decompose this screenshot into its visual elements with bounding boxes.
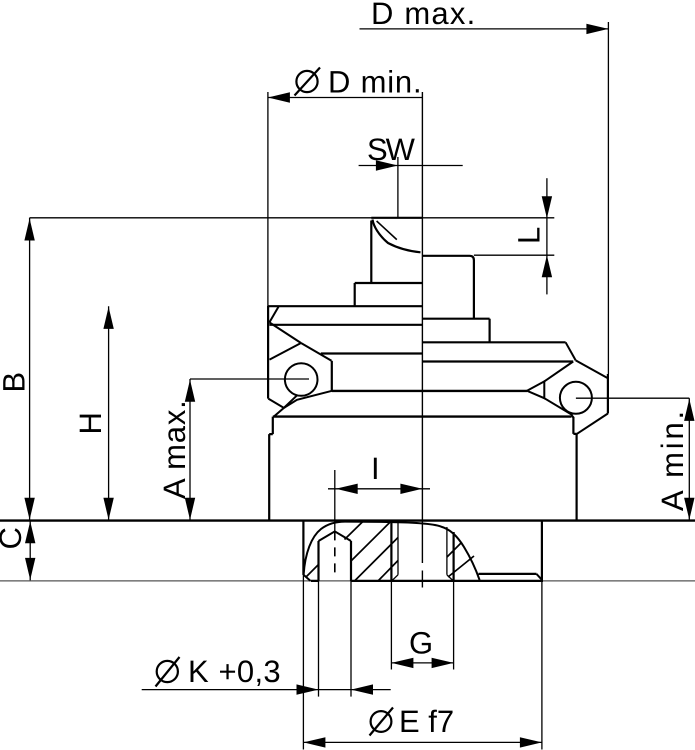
left face line [321,352,423,354]
K extension line right [350,581,352,697]
sealing insert dome outline [304,522,480,580]
right step edge [489,319,491,342]
svg-text:C: C [0,527,28,549]
stud base shoulder right with rounded corner [422,256,474,319]
K dimension line with arrows [142,689,391,691]
thread bore outer left [390,522,392,581]
hex collar line left [269,324,422,326]
insert section hatching (manual strokes) [306,521,475,581]
drill hole right wall [350,541,352,581]
E dimension line with outward arrows [303,741,542,743]
left hexagon: bottom-left chamfer [268,399,284,417]
left cross-hole circle [285,363,318,396]
stud base shoulder left [355,282,423,284]
spigot left wall [302,521,304,575]
right corner triangle: upper diagonal [544,362,573,382]
foot right top edge [479,573,537,575]
dimension A min. vertical line with arrows [688,398,690,520]
Ø D min. extension line / left hex silhouette [267,92,269,306]
thread bore outer right [453,532,455,581]
dimension B vertical line with arrows [29,218,31,521]
right corner triangle: lower diagonal [544,398,572,415]
mid face line (thick, both halves) [332,390,527,392]
svg-text:H: H [73,412,108,434]
dimension H vertical line with arrows [108,306,110,520]
left hexagon: bottom-right edge [284,391,332,408]
SW dimension line with arrow [359,165,463,167]
hole axis dashed centerline [334,531,336,578]
svg-text:D min.: D min. [328,65,422,100]
right hex bottom corner chamfer [577,414,608,434]
svg-text:K: K [188,654,209,689]
hex chamfer right [566,342,576,360]
svg-text:B: B [0,372,32,393]
spigot right wall [541,521,543,581]
neck and body right [571,415,576,520]
stud base left edge [354,283,356,306]
stud left edge [370,221,372,284]
left hexagon: right vertical edge [331,361,333,391]
dimension A max. vertical line with arrows [189,379,191,521]
hex top face right half [422,341,565,343]
hex top-left chamfer [269,306,278,322]
thread chamfer right [447,575,454,581]
G extension line right [453,581,455,669]
left hexagon: upper-left vertex edge [270,343,302,360]
svg-text:G: G [409,626,433,661]
G dimension line with outward arrows [391,662,453,664]
insert bottom edge (thick) [311,580,543,582]
D max. extension line / right hex corner edge [607,22,609,374]
dimension C vertical line with arrows [29,521,31,581]
svg-text:L: L [512,227,547,244]
left hexagon: steep edge to circle [284,395,297,408]
drill cone [319,531,352,541]
hex top face / H reference (left half) [268,305,422,307]
thread chamfer left [392,575,398,581]
G extension line left [390,581,392,669]
dimension Ø D min. label [295,65,423,100]
I extension line (hole axis) [334,470,336,531]
left hexagon face: top-left edge [269,322,301,343]
stud top face (thick part edge) [371,217,422,219]
stud scallop arc (left half section) [373,220,421,253]
hex bottom face [273,415,572,417]
E extension line left [302,575,304,750]
A min. top reference line [576,397,689,399]
hex corner slope right [576,360,608,378]
dimension Ø E f7 label [370,704,455,739]
I dimension line with arrows [328,488,430,490]
hex face line right [422,360,573,362]
panel bottom surface line (thin) [0,580,695,582]
thread bore inner left (thin) [397,522,399,575]
svg-text:I: I [371,451,380,486]
L bottom extension line [474,254,554,256]
drill hole left wall [317,541,319,581]
spigot left chamfer [304,575,311,581]
svg-text:+0,3: +0,3 [219,654,281,689]
foot right chamfer [537,574,542,580]
right cross-hole circle [560,382,592,414]
thread bore inner right (thin) [446,527,448,575]
A max. top reference line [190,378,309,380]
left hexagon: top-right edge [301,343,332,361]
E extension line right [541,581,543,750]
SW extension line [397,157,399,218]
dimension Ø K +0,3 label [156,654,281,689]
right step top [422,318,489,320]
dimension L vertical line with arrows [546,178,548,294]
center axis line [421,92,423,588]
dimension Ø D min. line with left arrow [268,97,422,99]
hatch line in stud sliver [377,221,397,240]
svg-text:D max.: D max. [371,0,476,31]
dimension D max. line with right arrow [360,28,609,30]
right corner triangle [527,381,544,398]
svg-text:SW: SW [367,132,416,167]
svg-text:E f7: E f7 [399,704,454,739]
svg-text:A min.: A min. [655,408,690,511]
neck left [269,417,273,521]
svg-text:A max.: A max. [157,399,192,499]
K extension line left [318,581,320,697]
top face reference line (B top / L top extension) [30,217,555,219]
panel top surface line [0,519,695,521]
